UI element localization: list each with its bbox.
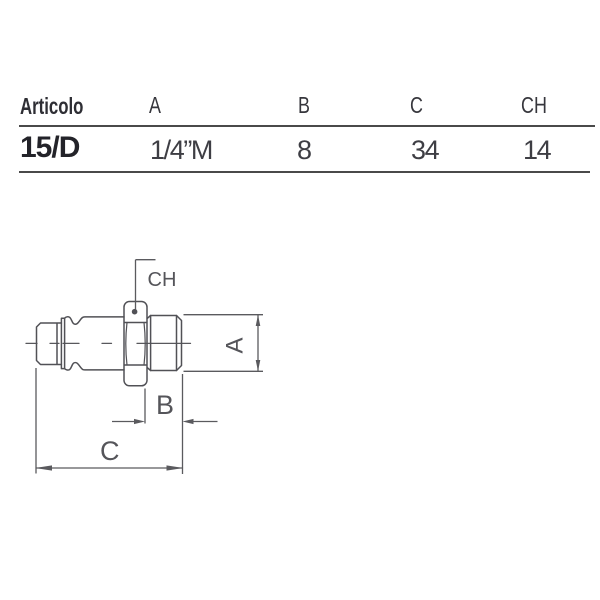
svg-text:CH: CH [148,269,177,291]
svg-text:A: A [222,337,249,353]
svg-text:B: B [156,390,174,420]
svg-text:C: C [100,436,120,466]
